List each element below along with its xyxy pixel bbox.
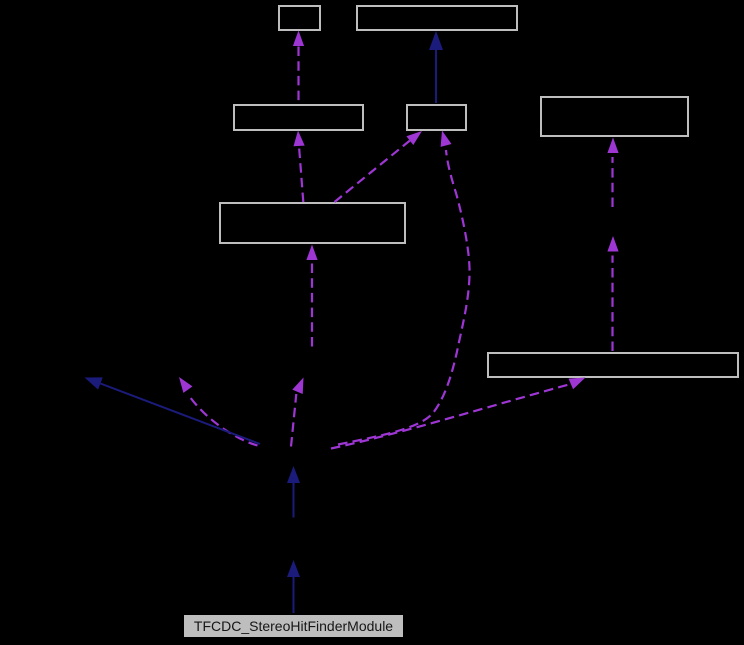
node box D (second row middle) (407, 105, 466, 130)
edge junction to hidden base (solid blue diagonal) (85, 377, 261, 444)
edge G to hidden node (dashed lower segment) (607, 236, 618, 351)
node box B (top wide) (357, 6, 517, 30)
node box C (second row left) (234, 105, 363, 130)
edge junction to hidden left node (dashed curve) (179, 377, 258, 446)
edge hidden mid to junction (solid blue vertical upper) (287, 466, 300, 518)
edge junction to F lower segment (dashed) (291, 378, 304, 447)
edge F to C (dashed) (294, 131, 305, 203)
edge C to A (dashed) (293, 31, 304, 104)
node box A (top small) (279, 6, 320, 30)
node box H main: TFCDC_StereoHitFinderModule (184, 615, 403, 637)
node box F (third row, two-line) (220, 203, 405, 243)
node box E (second row right, two-line) (541, 97, 688, 136)
svg-text:TFCDC_StereoHitFinderModule: TFCDC_StereoHitFinderModule (194, 618, 393, 634)
edge hidden node to E (dashed upper segment) (607, 138, 618, 208)
edge junction to F upper segment (dashed vertical) (306, 245, 317, 347)
edge F to D (dashed diagonal) (335, 131, 423, 202)
edge D to B (solid blue) (429, 31, 443, 103)
edge main node to hidden mid (solid blue vertical lower) (287, 560, 300, 613)
edge junction to G (dashed) (331, 378, 586, 449)
node box G (right middle wide) (488, 353, 738, 377)
edge junction to D (big dashed right loop) (338, 131, 470, 445)
